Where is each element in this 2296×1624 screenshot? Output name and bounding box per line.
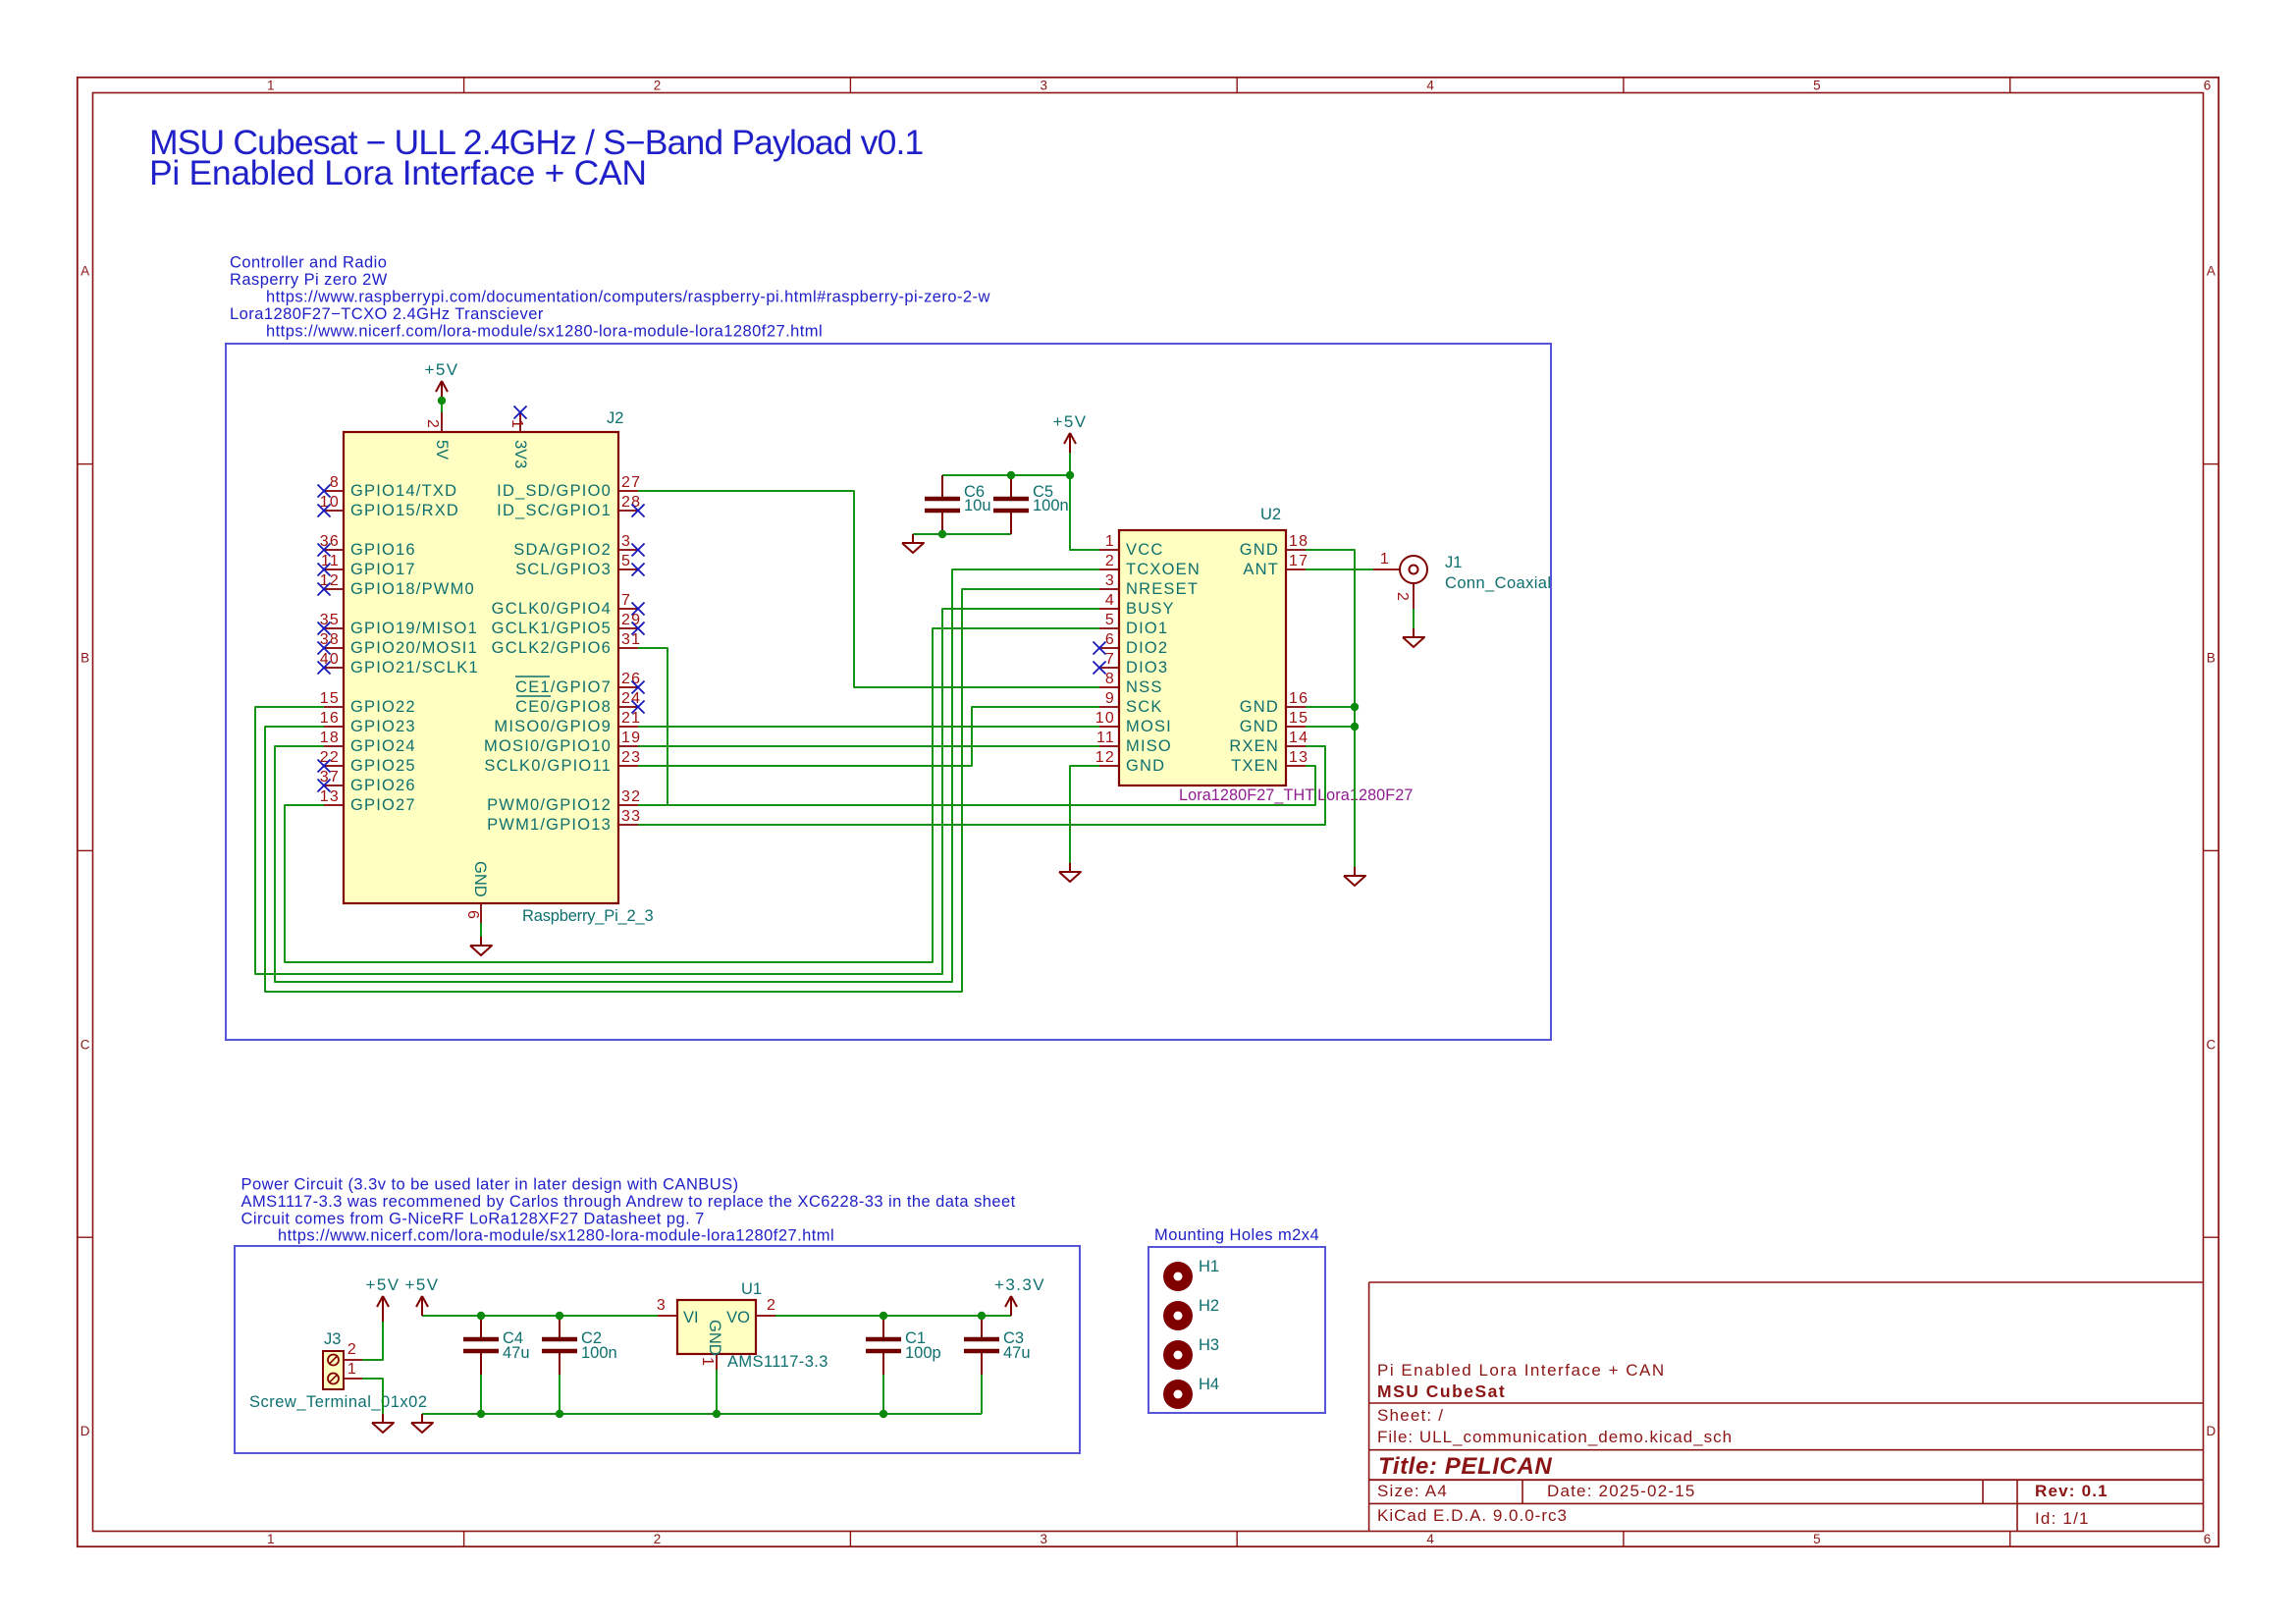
- svg-text:GPIO26: GPIO26: [350, 777, 416, 794]
- svg-text:+5V: +5V: [366, 1275, 400, 1294]
- svg-text:2: 2: [1105, 553, 1115, 569]
- svg-text:C: C: [2207, 1037, 2216, 1052]
- svg-text:2: 2: [767, 1297, 776, 1314]
- svg-text:32: 32: [621, 788, 641, 805]
- svg-text:Controller and Radio: Controller and Radio: [230, 254, 387, 272]
- svg-text:CE0/GPIO8: CE0/GPIO8: [515, 698, 612, 716]
- svg-text:PWM1/GPIO13: PWM1/GPIO13: [487, 816, 612, 834]
- svg-text:D: D: [80, 1424, 90, 1438]
- svg-text:PWM0/GPIO12: PWM0/GPIO12: [487, 796, 612, 814]
- svg-text:29: 29: [621, 612, 641, 628]
- svg-text:MSU CubeSat: MSU CubeSat: [1377, 1381, 1506, 1401]
- svg-text:5: 5: [621, 553, 631, 569]
- svg-text:1: 1: [267, 79, 275, 93]
- svg-text:GPIO22: GPIO22: [350, 698, 416, 716]
- svg-text:8: 8: [330, 474, 340, 491]
- svg-text:https://www.nicerf.com/lora-mo: https://www.nicerf.com/lora-module/sx128…: [278, 1227, 834, 1245]
- svg-text:11: 11: [321, 553, 340, 569]
- svg-text:GPIO17: GPIO17: [350, 561, 416, 578]
- svg-text:H1: H1: [1199, 1258, 1219, 1275]
- svg-text:D: D: [2207, 1424, 2216, 1438]
- svg-text:19: 19: [621, 730, 641, 746]
- svg-text:B: B: [80, 651, 89, 666]
- svg-text:J3: J3: [324, 1330, 341, 1348]
- svg-text:CE1/GPIO7: CE1/GPIO7: [515, 678, 612, 696]
- svg-text:3: 3: [657, 1297, 667, 1314]
- svg-text:1: 1: [1380, 551, 1390, 568]
- svg-text:2: 2: [1394, 592, 1411, 602]
- svg-text:https://www.raspberrypi.com/do: https://www.raspberrypi.com/documentatio…: [266, 289, 990, 306]
- svg-text:4: 4: [1426, 1532, 1434, 1546]
- svg-text:Date: 2025-02-15: Date: 2025-02-15: [1547, 1482, 1696, 1500]
- svg-text:VO: VO: [726, 1309, 750, 1326]
- svg-text:GND: GND: [1240, 541, 1279, 559]
- svg-text:100n: 100n: [581, 1344, 617, 1362]
- svg-text:Lora1280F27−TCXO 2.4GHz Transc: Lora1280F27−TCXO 2.4GHz Transciever: [230, 305, 544, 323]
- svg-text:RXEN: RXEN: [1229, 737, 1279, 755]
- svg-text:GPIO16: GPIO16: [350, 541, 416, 559]
- svg-text:100p: 100p: [905, 1344, 941, 1362]
- svg-text:AMS1117-3.3 was recommened by: AMS1117-3.3 was recommened by Carlos thr…: [241, 1193, 1016, 1211]
- svg-text:7: 7: [1105, 651, 1115, 668]
- svg-text:DIO1: DIO1: [1126, 620, 1168, 637]
- svg-text:6: 6: [1105, 631, 1115, 648]
- svg-text:2: 2: [347, 1341, 357, 1358]
- svg-text:12: 12: [320, 572, 340, 589]
- svg-text:VCC: VCC: [1126, 541, 1163, 559]
- svg-text:GPIO27: GPIO27: [350, 796, 416, 814]
- svg-text:24: 24: [621, 690, 641, 707]
- svg-text:GND: GND: [471, 861, 489, 897]
- svg-text:C: C: [80, 1037, 90, 1052]
- svg-text:GND: GND: [1240, 718, 1279, 735]
- svg-text:GCLK0/GPIO4: GCLK0/GPIO4: [492, 600, 612, 618]
- svg-text:GCLK2/GPIO6: GCLK2/GPIO6: [492, 639, 612, 657]
- svg-text:7: 7: [621, 592, 631, 609]
- svg-text:GCLK1/GPIO5: GCLK1/GPIO5: [492, 620, 612, 637]
- svg-text:Power Circuit (3.3v to be used: Power Circuit (3.3v to be used later in …: [241, 1176, 739, 1194]
- svg-text:SCLK0/GPIO11: SCLK0/GPIO11: [484, 757, 612, 775]
- svg-text:16: 16: [320, 710, 340, 727]
- svg-text:10: 10: [1095, 710, 1115, 727]
- svg-text:MISO0/GPIO9: MISO0/GPIO9: [494, 718, 612, 735]
- svg-text:H3: H3: [1199, 1336, 1219, 1354]
- svg-text:ID_SC/GPIO1: ID_SC/GPIO1: [497, 502, 612, 519]
- svg-text:1: 1: [699, 1357, 716, 1367]
- svg-text:NRESET: NRESET: [1126, 580, 1199, 598]
- svg-text:6: 6: [2204, 1532, 2212, 1546]
- svg-text:37: 37: [320, 769, 340, 785]
- svg-text:2: 2: [424, 419, 441, 429]
- svg-text:SCK: SCK: [1126, 698, 1163, 716]
- svg-text:GND: GND: [706, 1320, 723, 1356]
- svg-text:47u: 47u: [1003, 1344, 1031, 1362]
- svg-text:4: 4: [1105, 592, 1115, 609]
- svg-text:GPIO25: GPIO25: [350, 757, 416, 775]
- svg-text:ANT: ANT: [1243, 561, 1279, 578]
- svg-text:GPIO23: GPIO23: [350, 718, 416, 735]
- svg-text:36: 36: [320, 533, 340, 550]
- svg-text:23: 23: [621, 749, 641, 766]
- svg-text:Mounting Holes m2x4: Mounting Holes m2x4: [1154, 1226, 1319, 1244]
- svg-text:SDA/GPIO2: SDA/GPIO2: [513, 541, 612, 559]
- svg-text:33: 33: [621, 808, 641, 825]
- svg-text:11: 11: [1096, 730, 1115, 746]
- svg-text:ID_SD/GPIO0: ID_SD/GPIO0: [497, 482, 612, 500]
- svg-text:1: 1: [508, 419, 525, 429]
- svg-text:5V: 5V: [433, 440, 451, 460]
- svg-text:J1: J1: [1445, 554, 1462, 571]
- svg-text:3V3: 3V3: [511, 440, 529, 468]
- svg-text:GND: GND: [1126, 757, 1165, 775]
- svg-text:Title: PELICAN: Title: PELICAN: [1378, 1453, 1552, 1480]
- svg-text:27: 27: [621, 474, 641, 491]
- svg-text:100n: 100n: [1033, 497, 1069, 514]
- svg-text:4: 4: [1426, 79, 1434, 93]
- svg-text:GPIO24: GPIO24: [350, 737, 416, 755]
- svg-text:15: 15: [320, 690, 340, 707]
- svg-text:28: 28: [621, 494, 641, 511]
- svg-text:GND: GND: [1240, 698, 1279, 716]
- svg-text:VI: VI: [683, 1309, 699, 1326]
- svg-text:38: 38: [320, 631, 340, 648]
- svg-text:10u: 10u: [964, 497, 991, 514]
- svg-text:J2: J2: [607, 409, 623, 427]
- svg-text:TCXOEN: TCXOEN: [1126, 561, 1201, 578]
- svg-text:MISO: MISO: [1126, 737, 1172, 755]
- svg-text:GPIO20/MOSI1: GPIO20/MOSI1: [350, 639, 478, 657]
- svg-text:13: 13: [320, 788, 340, 805]
- svg-text:Pi Enabled Lora Interface + CA: Pi Enabled Lora Interface + CAN: [1377, 1361, 1666, 1380]
- svg-text:5: 5: [1813, 79, 1821, 93]
- svg-text:1: 1: [267, 1532, 275, 1546]
- svg-text:Id: 1/1: Id: 1/1: [2035, 1509, 2090, 1528]
- svg-text:17: 17: [1289, 553, 1308, 569]
- svg-text:8: 8: [1105, 671, 1115, 687]
- svg-text:NSS: NSS: [1126, 678, 1163, 696]
- svg-text:6: 6: [2204, 79, 2212, 93]
- svg-text:https://www.nicerf.com/lora-mo: https://www.nicerf.com/lora-module/sx128…: [266, 323, 823, 341]
- svg-text:40: 40: [320, 651, 340, 668]
- svg-text:MOSI: MOSI: [1126, 718, 1172, 735]
- svg-text:3: 3: [1041, 1532, 1048, 1546]
- svg-text:35: 35: [320, 612, 340, 628]
- svg-text:MOSI0/GPIO10: MOSI0/GPIO10: [484, 737, 612, 755]
- svg-text:GPIO15/RXD: GPIO15/RXD: [350, 502, 459, 519]
- svg-text:GPIO14/TXD: GPIO14/TXD: [350, 482, 457, 500]
- svg-text:Circuit comes from G-NiceRF Lo: Circuit comes from G-NiceRF LoRa128XF27 …: [241, 1211, 705, 1228]
- svg-text:+5V: +5V: [425, 360, 459, 379]
- svg-text:A: A: [80, 264, 89, 279]
- svg-text:BUSY: BUSY: [1126, 600, 1175, 618]
- svg-text:18: 18: [1289, 533, 1308, 550]
- svg-text:12: 12: [1095, 749, 1115, 766]
- svg-text:13: 13: [1289, 749, 1308, 766]
- svg-text:H2: H2: [1199, 1297, 1219, 1315]
- svg-text:14: 14: [1289, 730, 1308, 746]
- svg-text:5: 5: [1105, 612, 1115, 628]
- svg-text:21: 21: [621, 710, 641, 727]
- svg-text:TXEN: TXEN: [1231, 757, 1279, 775]
- svg-text:Raspberry_Pi_2_3: Raspberry_Pi_2_3: [522, 907, 653, 925]
- svg-text:9: 9: [1105, 690, 1115, 707]
- svg-text:10: 10: [320, 494, 340, 511]
- svg-text:3: 3: [621, 533, 631, 550]
- svg-text:File: ULL_communication_demo.k: File: ULL_communication_demo.kicad_sch: [1377, 1428, 1733, 1446]
- svg-text:15: 15: [1289, 710, 1308, 727]
- svg-text:Sheet: /: Sheet: /: [1377, 1406, 1444, 1425]
- svg-text:DIO3: DIO3: [1126, 659, 1168, 677]
- svg-text:5: 5: [1813, 1532, 1821, 1546]
- svg-text:Screw_Terminal_01x02: Screw_Terminal_01x02: [249, 1393, 428, 1411]
- svg-text:26: 26: [621, 671, 641, 687]
- svg-text:U2: U2: [1260, 506, 1281, 523]
- svg-text:16: 16: [1289, 690, 1308, 707]
- svg-text:31: 31: [621, 631, 641, 648]
- svg-text:3: 3: [1105, 572, 1115, 589]
- svg-text:U1: U1: [741, 1280, 762, 1298]
- svg-text:H4: H4: [1199, 1376, 1219, 1393]
- svg-text:GPIO19/MISO1: GPIO19/MISO1: [350, 620, 478, 637]
- svg-text:B: B: [2207, 651, 2216, 666]
- svg-text:22: 22: [320, 749, 340, 766]
- svg-text:GPIO18/PWM0: GPIO18/PWM0: [350, 580, 475, 598]
- svg-text:Pi Enabled Lora Interface + CA: Pi Enabled Lora Interface + CAN: [149, 153, 647, 192]
- svg-text:Rasperry Pi zero 2W: Rasperry Pi zero 2W: [230, 271, 388, 289]
- svg-text:AMS1117-3.3: AMS1117-3.3: [727, 1353, 828, 1371]
- svg-text:47u: 47u: [503, 1344, 530, 1362]
- svg-text:1: 1: [1105, 533, 1115, 550]
- svg-text:6: 6: [464, 910, 481, 920]
- svg-text:3: 3: [1041, 79, 1048, 93]
- svg-text:A: A: [2207, 264, 2216, 279]
- svg-text:2: 2: [654, 79, 662, 93]
- svg-text:+5V: +5V: [1053, 412, 1088, 431]
- svg-text:Rev: 0.1: Rev: 0.1: [2035, 1482, 2109, 1500]
- svg-text:DIO2: DIO2: [1126, 639, 1168, 657]
- svg-text:Lora1280F27_THT:Lora1280F27: Lora1280F27_THT:Lora1280F27: [1179, 786, 1413, 804]
- svg-text:GPIO21/SCLK1: GPIO21/SCLK1: [350, 659, 479, 677]
- svg-text:1: 1: [347, 1361, 357, 1378]
- svg-text:Conn_Coaxial: Conn_Coaxial: [1445, 574, 1551, 592]
- svg-text:18: 18: [320, 730, 340, 746]
- svg-text:Size: A4: Size: A4: [1377, 1482, 1448, 1500]
- svg-text:+5V: +5V: [405, 1275, 440, 1294]
- svg-text:SCL/GPIO3: SCL/GPIO3: [515, 561, 612, 578]
- svg-text:2: 2: [654, 1532, 662, 1546]
- svg-text:KiCad E.D.A. 9.0.0-rc3: KiCad E.D.A. 9.0.0-rc3: [1377, 1506, 1568, 1525]
- svg-text:+3.3V: +3.3V: [994, 1275, 1045, 1294]
